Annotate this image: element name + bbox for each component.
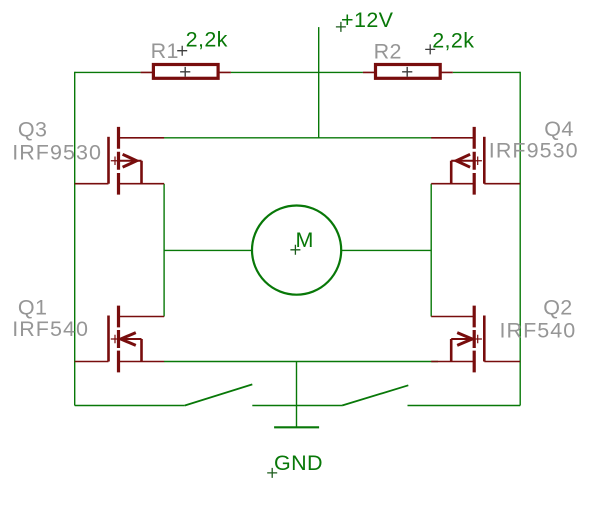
svg-text:+12V: +12V <box>341 8 394 32</box>
svg-text:IRF9530: IRF9530 <box>12 140 102 164</box>
svg-text:Q3: Q3 <box>18 118 47 142</box>
svg-text:Q4: Q4 <box>544 117 573 141</box>
svg-text:2,2k: 2,2k <box>186 28 228 52</box>
svg-text:IRF540: IRF540 <box>12 317 89 341</box>
svg-text:GND: GND <box>274 451 323 475</box>
svg-text:R1: R1 <box>151 39 179 63</box>
svg-text:R2: R2 <box>374 40 402 64</box>
svg-text:IRF540: IRF540 <box>500 318 577 342</box>
svg-text:2,2k: 2,2k <box>432 29 474 53</box>
svg-text:M: M <box>296 228 314 252</box>
svg-text:IRF9530: IRF9530 <box>489 138 579 162</box>
svg-text:Q2: Q2 <box>543 295 572 319</box>
